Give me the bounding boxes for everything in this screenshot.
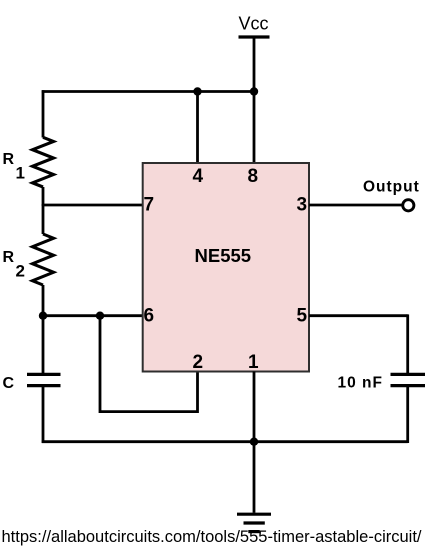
svg-text:1: 1	[16, 164, 25, 183]
svg-text:1: 1	[248, 352, 259, 373]
wire: right branch down to 10nF cap	[406, 314, 409, 374]
svg-text:NE555: NE555	[195, 245, 252, 266]
svg-text:https://allaboutcircuits.com/t: https://allaboutcircuits.com/tools/555-t…	[2, 528, 422, 546]
wire: pin 6 horizontal	[43, 314, 143, 317]
svg-text:Vcc: Vcc	[239, 14, 269, 34]
svg-text:4: 4	[193, 166, 204, 187]
ground symbol	[237, 513, 271, 516]
wire: pin 5 horizontal to right branch	[309, 314, 408, 317]
svg-text:5: 5	[297, 306, 308, 327]
wire: top rail	[42, 90, 254, 93]
svg-text:C: C	[3, 375, 15, 392]
wire: bottom rail	[42, 440, 408, 443]
svg-text:3: 3	[297, 195, 308, 216]
junction node: pin-2 branch on pin-6 wire	[96, 312, 104, 320]
junction node: R2 / C / pin 6	[39, 312, 47, 320]
capacitor C	[27, 373, 61, 376]
output terminal circle	[403, 200, 414, 211]
svg-text:7: 7	[144, 195, 155, 216]
svg-text:R: R	[3, 249, 15, 266]
junction node: Vcc stem / top rail	[250, 87, 258, 95]
wire: pin 1 / ground stem	[253, 372, 256, 513]
junction node: ground stem / bottom rail	[250, 438, 258, 446]
svg-text:R: R	[3, 151, 15, 168]
resistor R2	[33, 234, 54, 285]
IC U1 NE555 body	[143, 163, 309, 372]
svg-text:6: 6	[144, 306, 155, 327]
wire: 10nF cap to bottom rail	[406, 386, 409, 443]
wire: Vcc stem down to pin 8	[253, 37, 256, 164]
wire: node down to C	[42, 316, 45, 374]
svg-text:8: 8	[248, 166, 259, 187]
wire: top rail down to R1	[42, 90, 45, 137]
capacitor 10nF	[391, 373, 426, 376]
wire: pin 2 route (down, left, up)	[100, 316, 198, 412]
wire: pin 3 to output terminal	[309, 204, 402, 207]
wire: R1 to pin-7 node	[42, 187, 45, 206]
wire: R2 to pin-6 node	[42, 285, 45, 316]
power supply bar Vcc	[239, 35, 270, 38]
svg-text:Output: Output	[363, 179, 420, 196]
wire: pin 4 stem	[196, 92, 199, 165]
wire: C to bottom rail	[42, 386, 45, 443]
junction node: pin-4 stem / top rail	[193, 87, 201, 95]
svg-text:2: 2	[193, 352, 204, 373]
wire: node to R2	[42, 204, 45, 234]
resistor R1	[33, 137, 54, 187]
svg-text:10 nF: 10 nF	[338, 375, 383, 392]
wire: pin 7 horizontal	[43, 204, 143, 207]
svg-text:2: 2	[16, 262, 25, 281]
